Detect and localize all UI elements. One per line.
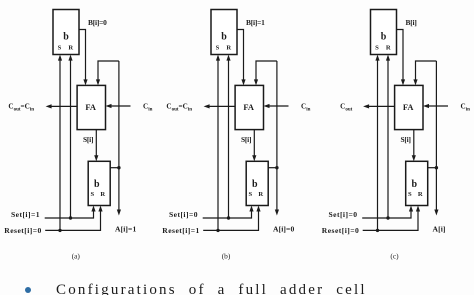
wire branch Reset line up to B latch S	[217, 60, 219, 230]
full adder FA, panel (b)	[235, 85, 263, 129]
arrowhead into FA top (A input)	[96, 79, 100, 85]
svg-text:Cin: Cin	[301, 103, 311, 113]
arrowhead into B latch R	[226, 55, 230, 61]
svg-text:R: R	[100, 191, 105, 198]
svg-text:b: b	[94, 179, 100, 190]
wire branch Set line up to B latch R	[228, 60, 230, 218]
arrowhead into A latch S	[249, 206, 253, 212]
wire A latch output tap to feedback line	[428, 167, 437, 169]
arrowhead into FA right (C_in)	[264, 104, 270, 108]
arrowhead into B latch S	[375, 55, 379, 61]
arrowhead into FA top (A input)	[254, 79, 258, 85]
wire Reset[i] line to A latch R	[203, 211, 258, 231]
wire feedback top jog to FA input A	[416, 61, 437, 81]
wire branch Reset line up to B latch S	[59, 60, 61, 230]
svg-text:S: S	[248, 191, 252, 198]
wire Set[i] line to A latch S	[45, 211, 94, 219]
svg-text:S: S	[375, 45, 379, 52]
wire carry out from FA left	[207, 105, 235, 107]
wire carry out from FA left	[49, 105, 77, 107]
arrowhead into B latch S	[216, 55, 220, 61]
arrowhead carry out (points left)	[46, 104, 52, 108]
arrowhead into FA right (C_in)	[106, 104, 112, 108]
svg-text:R: R	[226, 45, 231, 52]
wire A latch output tap to feedback line	[110, 167, 119, 169]
SR latch b (A[i] register), panel (a)	[88, 161, 110, 205]
svg-text:S: S	[58, 45, 62, 52]
junction Reset line / B latch branch	[58, 229, 61, 232]
junction Reset line / B latch branch	[376, 229, 379, 232]
wire sum S[i] from FA bottom to A latch	[95, 130, 97, 157]
SR latch b (B[i] register), panel (b)	[211, 10, 237, 55]
wire B latch output to FA input B	[397, 30, 404, 81]
arrowhead into FA right (C_in)	[423, 104, 429, 108]
svg-text:(a): (a)	[72, 252, 81, 261]
svg-text:B[i]=1: B[i]=1	[246, 18, 265, 27]
arrowhead into A latch R	[256, 206, 260, 212]
svg-text:Set[i]=0: Set[i]=0	[328, 210, 357, 219]
arrowhead into A latch top (S[i])	[412, 155, 416, 161]
SR latch b (B[i] register), panel (a)	[53, 10, 79, 55]
svg-text:A[i]: A[i]	[433, 225, 446, 234]
junction on feedback line	[117, 166, 120, 169]
SR latch b (B[i] register), panel (c)	[371, 10, 397, 55]
junction Set line / B latch branch	[386, 216, 389, 219]
svg-text:FA: FA	[403, 103, 414, 112]
figure caption bullet	[25, 287, 31, 293]
arrowhead into B latch S	[58, 55, 62, 61]
svg-text:FA: FA	[243, 103, 254, 112]
arrowhead into A latch S	[91, 206, 95, 212]
wire carry in to FA right	[109, 105, 131, 107]
arrowhead carry out (points left)	[204, 104, 210, 108]
arrowhead into FA top (A input)	[413, 79, 417, 85]
svg-text:S: S	[216, 45, 220, 52]
arrowhead into A latch top (S[i])	[94, 155, 98, 161]
wire B latch output to FA input B	[79, 30, 86, 81]
wire Reset[i] line to A latch R	[363, 211, 418, 231]
svg-text:Cout=Cin: Cout=Cin	[8, 103, 34, 113]
wire carry in to FA right	[267, 105, 289, 107]
wire A feedback vertical (up to FA input, down to A[i] out)	[118, 61, 120, 211]
arrowhead into A latch S	[409, 206, 413, 212]
svg-text:b: b	[412, 179, 418, 190]
svg-text:S[i]: S[i]	[83, 135, 93, 144]
wire sum S[i] from FA bottom to A latch	[253, 130, 255, 157]
svg-text:Cout=Cin: Cout=Cin	[166, 103, 192, 113]
arrowhead A[i] output (down)	[434, 210, 438, 216]
svg-text:b: b	[221, 32, 227, 43]
svg-text:FA: FA	[85, 103, 96, 112]
arrowhead into A latch top (S[i])	[252, 155, 256, 161]
svg-text:b: b	[252, 179, 258, 190]
junction Set line / B latch branch	[227, 216, 230, 219]
svg-text:Reset[i]=0: Reset[i]=0	[4, 226, 42, 235]
full adder FA, panel (c)	[395, 85, 423, 129]
svg-text:R: R	[386, 45, 391, 52]
wire A feedback vertical (up to FA input, down to A[i] out)	[276, 61, 278, 211]
wire A latch output tap to feedback line	[268, 167, 277, 169]
svg-text:R: R	[68, 45, 73, 52]
svg-text:B[i]: B[i]	[406, 18, 417, 27]
wire A feedback vertical (up to FA input, down to A[i] out)	[435, 61, 437, 211]
svg-text:Reset[i]=1: Reset[i]=1	[162, 226, 200, 235]
figure caption text (cut off at bottom edge)	[56, 282, 367, 295]
svg-text:Reset[i]=0: Reset[i]=0	[322, 226, 360, 235]
svg-text:Cout: Cout	[340, 103, 352, 113]
wire carry out from FA left	[367, 105, 395, 107]
SR latch b (A[i] register), panel (c)	[406, 161, 428, 205]
svg-text:S: S	[408, 191, 412, 198]
arrowhead A[i] output (down)	[117, 210, 121, 216]
svg-text:S[i]: S[i]	[241, 135, 251, 144]
junction on feedback line	[435, 166, 438, 169]
wire Set[i] line to A latch S	[203, 211, 252, 219]
arrowhead into B latch R	[68, 55, 72, 61]
svg-text:Set[i]=0: Set[i]=0	[169, 210, 198, 219]
arrowhead into FA top (B input)	[401, 79, 405, 85]
svg-text:R: R	[418, 191, 423, 198]
svg-text:Cin: Cin	[461, 103, 471, 113]
svg-text:(b): (b)	[222, 252, 231, 261]
svg-text:A[i]=1: A[i]=1	[115, 225, 136, 234]
arrowhead into A latch R	[98, 206, 102, 212]
svg-text:B[i]=0: B[i]=0	[88, 18, 107, 27]
arrowhead carry out (points left)	[363, 104, 369, 108]
junction Set line / B latch branch	[69, 216, 72, 219]
arrowhead into FA top (B input)	[241, 79, 245, 85]
wire sum S[i] from FA bottom to A latch	[413, 130, 415, 157]
SR latch b (A[i] register), panel (b)	[246, 161, 268, 205]
full adder FA, panel (a)	[77, 85, 105, 129]
wire branch Set line up to B latch R	[70, 60, 72, 218]
wire branch Reset line up to B latch S	[377, 60, 379, 230]
svg-text:S: S	[90, 191, 94, 198]
svg-text:R: R	[258, 191, 263, 198]
svg-text:A[i]=0: A[i]=0	[273, 225, 294, 234]
arrowhead into B latch R	[386, 55, 390, 61]
svg-text:b: b	[63, 32, 69, 43]
wire carry in to FA right	[427, 105, 449, 107]
arrowhead A[i] output (down)	[275, 210, 279, 216]
svg-text:S[i]: S[i]	[401, 135, 411, 144]
junction on feedback line	[275, 166, 278, 169]
wire feedback top jog to FA input A	[256, 61, 277, 81]
arrowhead into FA top (B input)	[83, 79, 87, 85]
wire feedback top jog to FA input A	[98, 61, 119, 81]
wire B latch output to FA input B	[237, 30, 244, 81]
wire Reset[i] line to A latch R	[45, 211, 100, 231]
arrowhead into A latch R	[416, 206, 420, 212]
svg-text:Cin: Cin	[143, 103, 153, 113]
junction Reset line / B latch branch	[216, 229, 219, 232]
svg-text:Set[i]=1: Set[i]=1	[11, 210, 40, 219]
wire Set[i] line to A latch S	[362, 211, 411, 219]
svg-text:(c): (c)	[390, 252, 399, 261]
wire branch Set line up to B latch R	[387, 60, 389, 218]
svg-text:b: b	[381, 32, 387, 43]
